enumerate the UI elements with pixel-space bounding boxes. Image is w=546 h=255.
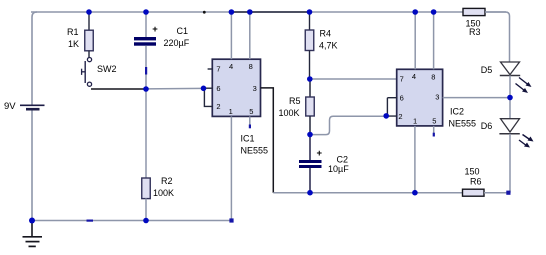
node IC2 pin1 bottom rail (412, 190, 418, 196)
node top rail C1 (143, 9, 149, 15)
svg-text:100K: 100K (279, 108, 300, 118)
svg-text:3: 3 (253, 84, 257, 93)
svg-text:4: 4 (412, 72, 416, 81)
node IC2 pin2 (383, 113, 389, 119)
wire bottom right rail (310, 192, 463, 194)
svg-text:IC2: IC2 (450, 107, 464, 117)
svg-text:3: 3 (435, 92, 439, 101)
svg-text:R5: R5 (289, 96, 301, 106)
svg-text:NE555: NE555 (449, 119, 477, 129)
svg-text:5: 5 (432, 116, 436, 125)
node top rail IC2 pin8 (431, 9, 437, 15)
resistor R1 (85, 12, 94, 58)
svg-text:10µF: 10µF (328, 164, 349, 174)
node top rail R1 (86, 9, 92, 15)
net tick on bottom rail (87, 220, 94, 222)
wire D6 to bottom rail (509, 134, 511, 193)
wire R5 bottom to IC2 pin 2 (310, 116, 386, 134)
svg-text:C2: C2 (337, 155, 349, 165)
wire SW2 to node A dark (91, 88, 146, 90)
IC1 pin 5 stub (249, 116, 251, 128)
svg-text:R6: R6 (470, 177, 482, 187)
svg-text:220µF: 220µF (164, 38, 190, 48)
IC1 pin 4 wire to rail (230, 12, 232, 59)
svg-text:SW2: SW2 (97, 64, 117, 74)
node battery/ground (29, 218, 35, 224)
op-amp timer IC1 NE555 body (212, 59, 260, 116)
svg-text:7: 7 (216, 64, 220, 73)
wire top-left corner (32, 12, 37, 105)
node D5/D6/IC2 pin3 (507, 95, 513, 101)
svg-text:IC1: IC1 (241, 134, 255, 144)
svg-text:R1: R1 (67, 27, 79, 37)
svg-text:2: 2 (216, 102, 220, 111)
LED D6 (499, 119, 533, 148)
svg-text:7: 7 (400, 74, 404, 83)
svg-text:D6: D6 (481, 121, 493, 131)
wire top rail dark segment (232, 11, 311, 13)
IC1 pin 1 terminal square (229, 218, 233, 222)
IC2 pin 2 bracket wire (387, 98, 397, 116)
svg-text:NE555: NE555 (241, 146, 269, 156)
battery BT1 9V (20, 105, 45, 110)
svg-text:6: 6 (400, 93, 404, 102)
wire node A to IC1 pin6 (146, 87, 204, 90)
svg-text:4,7K: 4,7K (319, 41, 338, 51)
node IC1 pin6 (201, 86, 207, 92)
svg-text:R2: R2 (161, 176, 173, 186)
wire left rail below battery (31, 109, 33, 221)
svg-text:6: 6 (216, 84, 220, 93)
IC1 pin 2 bracket wire (204, 88, 213, 106)
terminal square node D6/R6 (506, 191, 510, 195)
svg-text:R3: R3 (469, 27, 481, 37)
LED D5 (500, 62, 532, 93)
net speck on top rail (203, 11, 206, 14)
svg-text:+: + (152, 24, 158, 35)
IC1 pin 1 wire to ground rail (230, 116, 232, 220)
node top rail IC1 pin4 (229, 9, 235, 15)
svg-text:1: 1 (413, 117, 417, 126)
svg-text:2: 2 (398, 112, 402, 121)
svg-text:150: 150 (465, 167, 480, 177)
IC2 pin 3 wire to LEDs (443, 97, 510, 99)
svg-text:9V: 9V (4, 101, 16, 112)
resistor R3 (463, 8, 485, 15)
IC2 pin 8 wire to rail (433, 12, 435, 69)
capacitor C2 (299, 135, 322, 193)
svg-text:+: + (317, 148, 323, 159)
node R4/R5/IC2 pin7 (307, 76, 313, 82)
svg-text:C1: C1 (177, 26, 189, 36)
svg-text:1: 1 (229, 107, 233, 116)
wire R4/R5 node to IC2 pin 7 (310, 78, 397, 80)
node C2 bottom rail (307, 190, 313, 196)
resistor R5 (306, 79, 315, 135)
svg-text:1K: 1K (68, 39, 79, 49)
IC2 pin 4 wire to rail (414, 12, 416, 69)
node top rail R4 (307, 9, 313, 15)
wire node to D6 (509, 98, 511, 119)
svg-text:5: 5 (249, 107, 253, 116)
capacitor C1 (134, 12, 156, 89)
wire top rail gray segment (31, 11, 506, 13)
resistor R6 (463, 189, 485, 196)
IC1 pin 8 wire to rail (249, 12, 251, 59)
IC1 pin 6 stub (204, 87, 214, 89)
svg-text:4: 4 (229, 62, 233, 71)
svg-text:R4: R4 (320, 29, 332, 39)
IC1 pin 7 stub (208, 68, 213, 70)
wire bottom left rail (32, 220, 232, 222)
ground (23, 221, 43, 247)
node R5/C2 (307, 132, 313, 138)
node top rail IC2 pin4 (412, 9, 418, 15)
resistor R2 (142, 89, 151, 221)
resistor R4 (305, 12, 314, 79)
wire D5 to node (509, 76, 511, 98)
node R2 bottom rail (143, 218, 149, 224)
node top rail IC1 pin8 (247, 9, 253, 15)
svg-text:8: 8 (431, 72, 435, 81)
IC2 pin 6 stub (387, 97, 397, 99)
node A SW2/C1/R2 (143, 86, 149, 92)
IC2 pin 1 wire to bottom rail (414, 126, 416, 193)
wire R3 to D5 (485, 12, 510, 63)
svg-text:100K: 100K (153, 188, 174, 198)
svg-text:8: 8 (249, 62, 253, 71)
wire IC1 pin 3 to bottom rail (261, 88, 274, 193)
svg-text:D5: D5 (481, 65, 493, 75)
IC2 pin 5 stub (433, 126, 435, 137)
wire R6 to D6 terminal (484, 192, 508, 194)
op-amp timer IC2 NE555 body (397, 69, 443, 126)
switch SW2 (82, 58, 92, 87)
